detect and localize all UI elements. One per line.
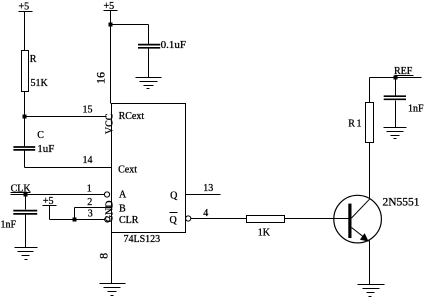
svg-text:+5: +5 xyxy=(19,2,30,13)
ground (CLK capacitor) xyxy=(15,248,38,260)
node junction R/C/pin15 xyxy=(23,115,27,119)
wire +5 to pin 3 CLR xyxy=(50,219,105,221)
node junction REF/1nF xyxy=(394,76,398,80)
wire node to 1nF capacitor xyxy=(395,78,397,96)
node junction CLK/C2 xyxy=(24,193,28,197)
svg-text:2: 2 xyxy=(87,197,92,208)
resistor R 51K xyxy=(22,51,49,92)
svg-text:B: B xyxy=(119,204,126,215)
wire node to bypass capacitor xyxy=(111,25,149,45)
power symbol +5 (B/CLR) xyxy=(43,196,57,220)
wire pin 4 to 1K resistor xyxy=(191,208,247,219)
wire CLK to pin 1 A xyxy=(11,194,105,196)
svg-text:Q: Q xyxy=(170,215,178,226)
svg-text:2N5551: 2N5551 xyxy=(383,196,420,208)
capacitor 1nF (REF) xyxy=(384,96,424,114)
wire CLK node to capacitor xyxy=(25,195,27,210)
wire node up to pin 2 B xyxy=(75,208,112,220)
pin 4 inverting bubble xyxy=(186,216,191,221)
svg-text:RCext: RCext xyxy=(119,111,145,122)
wire capacitor to ground xyxy=(25,215,27,248)
svg-text:1nF: 1nF xyxy=(1,219,17,230)
wire capacitor to ground xyxy=(148,49,150,78)
power symbol +5 (VCC pin 16) xyxy=(104,1,118,103)
ground (bypass capacitor) xyxy=(136,78,162,89)
svg-text:1: 1 xyxy=(87,183,92,194)
svg-text:VCC: VCC xyxy=(104,113,115,134)
svg-text:14: 14 xyxy=(83,155,93,166)
resistor R1 xyxy=(348,103,373,143)
wire R1 to REF rail xyxy=(369,78,371,103)
svg-text:R: R xyxy=(30,54,37,65)
capacitor 1nF (CLK) xyxy=(1,211,38,231)
svg-text:R1: R1 xyxy=(348,118,363,129)
net label REF xyxy=(394,66,414,77)
wire pin 14 to Cext xyxy=(25,151,112,168)
node junction VCC/bypass cap xyxy=(109,23,113,27)
resistor 1K xyxy=(247,216,285,239)
svg-text:15: 15 xyxy=(83,105,93,116)
wire R bottom to node xyxy=(24,92,26,117)
wire node to capacitor C xyxy=(24,117,26,147)
svg-text:16: 16 xyxy=(94,72,108,84)
node junction B/CLR xyxy=(73,218,77,222)
svg-text:1nF: 1nF xyxy=(408,103,424,114)
capacitor 0.1uF xyxy=(138,39,186,51)
svg-text:4: 4 xyxy=(203,208,208,219)
wire 1K to transistor base xyxy=(285,218,349,220)
wire emitter to ground xyxy=(369,241,371,285)
svg-text:74LS123: 74LS123 xyxy=(124,234,161,245)
wire capacitor to ground xyxy=(395,101,397,128)
svg-text:51K: 51K xyxy=(31,78,49,89)
svg-text:GND: GND xyxy=(104,201,115,223)
wire collector to R1 xyxy=(369,143,371,200)
pin 1 inverting bubble xyxy=(104,192,109,197)
ground (REF capacitor) xyxy=(384,128,407,139)
wire REF rail xyxy=(370,77,422,79)
svg-text:1uF: 1uF xyxy=(37,143,54,155)
svg-text:A: A xyxy=(119,190,127,201)
svg-text:0.1uF: 0.1uF xyxy=(161,39,186,51)
power symbol +5 (left rail) xyxy=(19,2,33,51)
svg-text:8: 8 xyxy=(97,253,111,259)
svg-text:CLR: CLR xyxy=(119,215,139,226)
IC pin label Q-bar xyxy=(170,213,178,227)
capacitor C 1uF xyxy=(13,130,54,155)
svg-text:C: C xyxy=(37,130,44,141)
net label CLK xyxy=(11,183,32,194)
transistor Q1 2N5551 xyxy=(334,195,420,243)
ground (emitter) xyxy=(358,285,385,297)
IC U1 74LS123 body xyxy=(112,104,186,245)
wire pin 15 to RCext xyxy=(25,105,107,117)
wire pin 13 Q stub xyxy=(186,183,221,195)
svg-text:Q: Q xyxy=(170,190,178,201)
svg-text:1K: 1K xyxy=(258,227,271,238)
svg-text:13: 13 xyxy=(203,183,213,194)
svg-text:3: 3 xyxy=(88,209,93,220)
ground (IC pin 8) xyxy=(100,284,126,296)
pin 3 inverting bubble xyxy=(105,217,110,222)
pin 8 wire to ground xyxy=(111,233,113,284)
svg-text:Cext: Cext xyxy=(118,164,137,175)
